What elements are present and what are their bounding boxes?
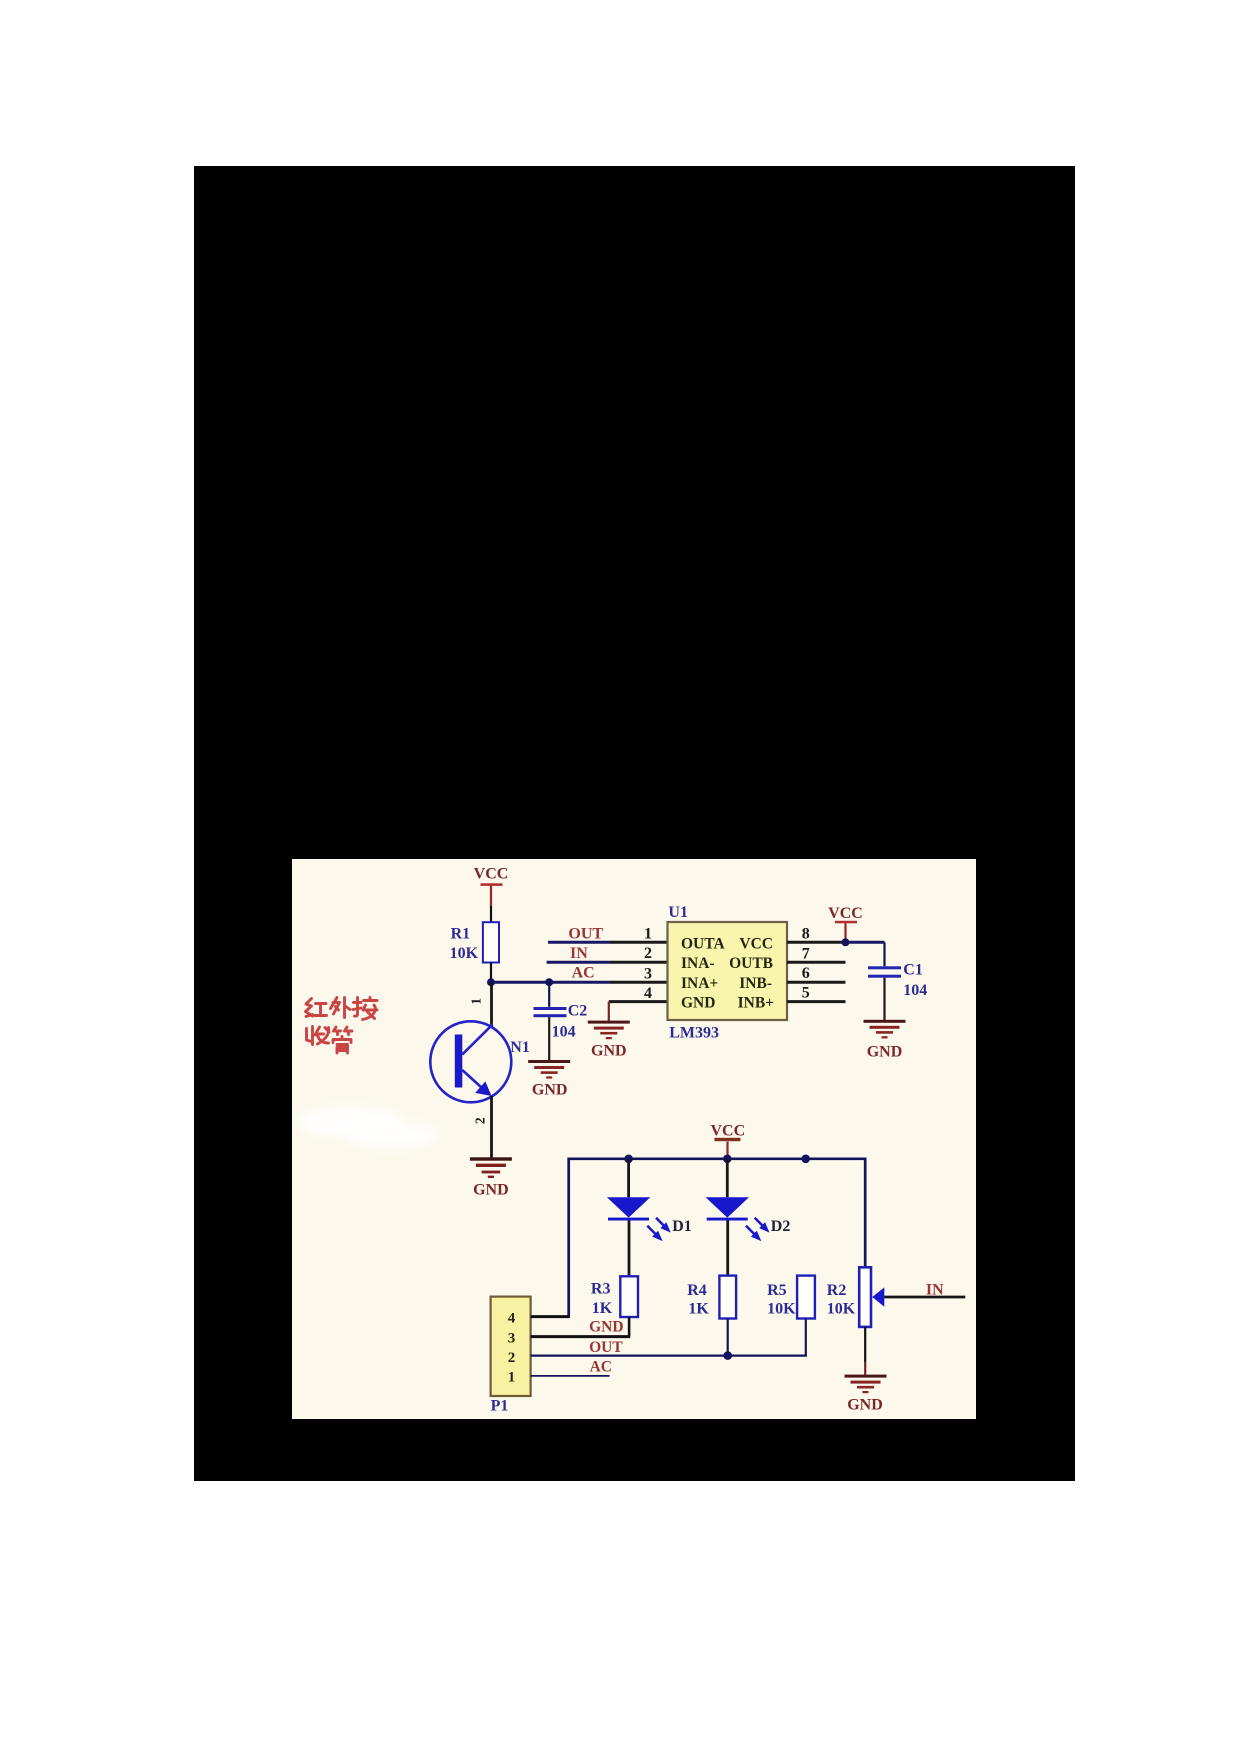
svg-text:GND: GND — [591, 1043, 627, 1060]
svg-text:LM393: LM393 — [669, 1025, 719, 1042]
svg-text:AC: AC — [572, 964, 595, 981]
svg-text:2: 2 — [508, 1350, 516, 1366]
svg-text:OUTA: OUTA — [681, 935, 725, 952]
svg-text:1: 1 — [644, 926, 652, 943]
svg-text:1: 1 — [508, 1370, 516, 1386]
svg-text:GND: GND — [867, 1044, 903, 1061]
svg-text:D2: D2 — [771, 1218, 791, 1235]
svg-text:6: 6 — [802, 965, 810, 982]
svg-text:C1: C1 — [903, 962, 923, 979]
svg-text:OUTB: OUTB — [729, 955, 773, 972]
svg-text:VCC: VCC — [739, 935, 773, 952]
svg-text:GND: GND — [589, 1319, 623, 1336]
svg-text:P1: P1 — [491, 1398, 509, 1415]
svg-text:10K: 10K — [767, 1301, 796, 1318]
svg-text:C2: C2 — [568, 1003, 588, 1020]
svg-text:4: 4 — [644, 985, 652, 1002]
svg-text:OUT: OUT — [589, 1339, 623, 1356]
svg-text:104: 104 — [903, 982, 927, 999]
svg-text:10K: 10K — [450, 945, 479, 962]
svg-text:IN: IN — [926, 1282, 944, 1299]
svg-text:U1: U1 — [668, 904, 688, 921]
svg-text:3: 3 — [508, 1331, 516, 1347]
svg-text:IN: IN — [570, 945, 588, 962]
svg-text:INA-: INA- — [681, 955, 715, 972]
svg-text:1K: 1K — [688, 1301, 709, 1318]
svg-text:R1: R1 — [451, 926, 471, 943]
svg-text:4: 4 — [508, 1311, 516, 1327]
svg-text:VCC: VCC — [828, 905, 863, 922]
svg-text:5: 5 — [802, 985, 810, 1002]
svg-text:INA+: INA+ — [681, 975, 718, 992]
svg-text:8: 8 — [802, 926, 810, 943]
svg-text:D1: D1 — [672, 1218, 692, 1235]
svg-text:10K: 10K — [827, 1301, 856, 1318]
svg-text:VCC: VCC — [474, 866, 509, 883]
svg-text:3: 3 — [644, 966, 652, 983]
svg-text:AC: AC — [590, 1359, 612, 1376]
svg-text:GND: GND — [532, 1082, 568, 1099]
svg-text:104: 104 — [552, 1024, 576, 1041]
svg-text:1K: 1K — [592, 1300, 613, 1317]
svg-text:R2: R2 — [827, 1282, 847, 1299]
svg-text:7: 7 — [802, 946, 810, 963]
svg-text:R3: R3 — [591, 1281, 611, 1298]
svg-text:1: 1 — [469, 998, 484, 1005]
svg-text:2: 2 — [473, 1117, 488, 1124]
svg-text:R4: R4 — [687, 1282, 707, 1299]
svg-text:GND: GND — [473, 1182, 509, 1199]
svg-text:VCC: VCC — [710, 1123, 745, 1140]
svg-text:INB-: INB- — [739, 975, 772, 992]
svg-text:INB+: INB+ — [738, 995, 775, 1012]
svg-text:GND: GND — [847, 1397, 883, 1414]
svg-text:OUT: OUT — [568, 926, 603, 943]
svg-text:R5: R5 — [767, 1282, 787, 1299]
svg-text:N1: N1 — [510, 1039, 530, 1056]
svg-text:2: 2 — [644, 945, 652, 962]
svg-text:GND: GND — [681, 995, 715, 1012]
